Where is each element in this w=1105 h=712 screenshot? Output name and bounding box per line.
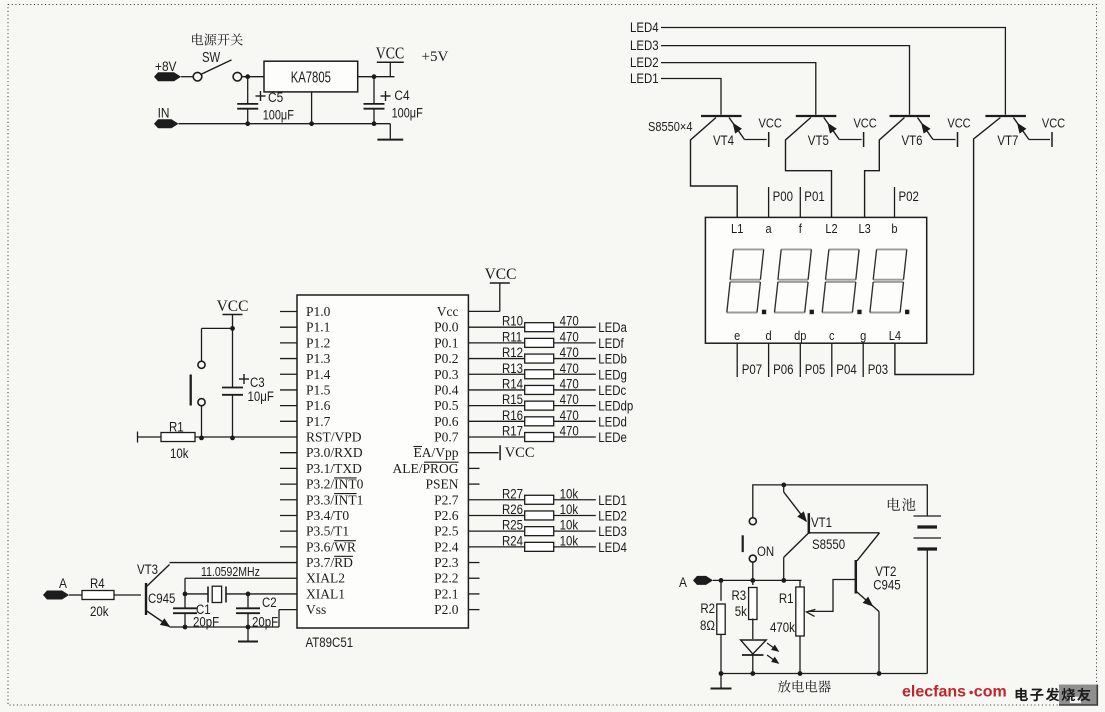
wire stub P1.3 <box>280 358 297 360</box>
svg-text:R26: R26 <box>502 502 523 517</box>
wire stub P1.5 <box>280 389 297 391</box>
resistor R15 470 <box>468 405 525 407</box>
svg-text:LED1: LED1 <box>630 71 659 86</box>
svg-text:P0.4: P0.4 <box>434 382 459 397</box>
wire reset switch to RST <box>201 406 203 438</box>
svg-text:R17: R17 <box>502 424 523 439</box>
svg-text:P2.1: P2.1 <box>434 586 458 601</box>
svg-text:XIAL2: XIAL2 <box>306 571 345 586</box>
power VCC at VT6 <box>957 132 959 147</box>
svg-text:VT3: VT3 <box>137 562 158 577</box>
svg-text:R1: R1 <box>779 591 794 606</box>
svg-text:VCC: VCC <box>759 116 783 131</box>
potentiometer R1 470k <box>799 580 801 587</box>
svg-text:Vcc: Vcc <box>437 304 459 319</box>
svg-text:VT1: VT1 <box>811 515 832 530</box>
svg-text:LEDdp: LEDdp <box>598 399 633 414</box>
svg-text:A: A <box>679 574 687 590</box>
switch SW 电源开关 <box>193 72 202 81</box>
wire stub P3.6/WR <box>280 546 297 548</box>
svg-text:R16: R16 <box>502 408 523 423</box>
svg-text:R11: R11 <box>502 330 522 345</box>
svg-text:R14: R14 <box>502 377 523 392</box>
svg-text:LEDd: LEDd <box>598 414 627 429</box>
svg-text:S8550×4: S8550×4 <box>648 119 693 134</box>
svg-text:LED3: LED3 <box>630 38 659 53</box>
svg-text:C5: C5 <box>268 89 283 105</box>
wire stub P1.7 <box>280 420 297 422</box>
svg-text:com: com <box>974 683 1007 700</box>
svg-text:C945: C945 <box>148 591 175 606</box>
transistor VT5 S8550 <box>796 115 837 117</box>
svg-text:AT89C51: AT89C51 <box>306 635 354 650</box>
svg-text:VCC: VCC <box>217 298 249 315</box>
node crystal right junction <box>246 592 251 597</box>
svg-text:LEDc: LEDc <box>598 383 626 398</box>
wire stub P3.2/INT0 <box>280 483 297 485</box>
wire stub P1.4 <box>280 373 297 375</box>
svg-text:R12: R12 <box>502 345 523 360</box>
wire Vss pin <box>279 609 297 611</box>
resistor R3 5k <box>752 580 754 585</box>
diode LED D1 <box>741 640 767 654</box>
svg-text:P01: P01 <box>804 189 824 204</box>
node VCC reset junction <box>230 326 235 331</box>
svg-text:elecfans: elecfans <box>902 683 966 700</box>
node regulator ground junction <box>309 121 314 126</box>
svg-text:LEDf: LEDf <box>598 336 624 351</box>
svg-text:P1.6: P1.6 <box>306 398 331 413</box>
svg-text:8Ω: 8Ω <box>700 618 715 633</box>
svg-text:P05: P05 <box>805 362 825 377</box>
node switch output junction <box>245 74 250 79</box>
resistor R1 10k (reset) <box>137 432 139 443</box>
svg-text:VCC: VCC <box>1042 116 1066 131</box>
wire regulator ground pin <box>311 92 313 124</box>
svg-text:P3.4/T0: P3.4/T0 <box>306 508 349 523</box>
node crystal left junction <box>183 592 188 597</box>
svg-text:P2.5: P2.5 <box>434 524 459 539</box>
display DS1 4-digit 7-segment <box>705 217 926 343</box>
wire battery top rail <box>753 485 928 518</box>
svg-text:P1.4: P1.4 <box>306 367 331 382</box>
svg-text:10μF: 10μF <box>248 389 275 404</box>
wire node A rail <box>713 579 802 581</box>
resistor R24 10k <box>468 546 525 548</box>
ground power <box>389 124 391 139</box>
resistor R25 10k <box>468 530 525 532</box>
resistor R27 10k <box>468 499 525 501</box>
svg-text:R24: R24 <box>502 533 523 548</box>
node VT1 emitter junction <box>781 483 786 488</box>
LED arrows <box>767 643 778 651</box>
seven-segment digits <box>727 249 764 312</box>
power VCC at VT5 <box>863 132 865 147</box>
logo 电子发烧友 <box>1059 685 1097 706</box>
svg-text:C3: C3 <box>250 375 265 390</box>
svg-text:Vss: Vss <box>306 602 326 617</box>
svg-text:L3: L3 <box>858 221 871 236</box>
svg-text:ON: ON <box>757 544 774 559</box>
svg-text:P0.7: P0.7 <box>434 430 459 445</box>
svg-text:470: 470 <box>560 408 579 423</box>
svg-text:IN: IN <box>158 104 170 120</box>
svg-text:LED2: LED2 <box>630 55 659 70</box>
svg-text:C2: C2 <box>262 595 277 610</box>
svg-text:P00: P00 <box>773 189 793 204</box>
svg-text:R4: R4 <box>90 576 105 591</box>
svg-text:LED3: LED3 <box>598 524 627 539</box>
svg-text:P3.2/INT0: P3.2/INT0 <box>306 477 364 492</box>
svg-text:P07: P07 <box>742 362 762 377</box>
svg-text:P2.0: P2.0 <box>434 602 459 617</box>
svg-text:a: a <box>766 221 772 236</box>
svg-text:5k: 5k <box>735 604 748 619</box>
transistor VT6 S8550 <box>890 115 931 117</box>
node regulator output junction <box>372 74 377 79</box>
transistor VT2 C945 <box>855 560 858 594</box>
wire stub P1.1 <box>280 326 297 328</box>
resistor R26 10k <box>468 514 525 516</box>
wire stub P3.3/INT1 <box>280 499 297 501</box>
svg-text:470: 470 <box>560 377 579 392</box>
capacitor C5 100uF <box>247 77 249 104</box>
svg-text:LEDg: LEDg <box>598 367 627 382</box>
wire switch to regulator <box>242 76 264 78</box>
resistor R2 8ohm <box>720 580 722 600</box>
svg-text:VCC: VCC <box>485 266 517 283</box>
svg-text:PSEN: PSEN <box>425 477 458 492</box>
svg-text:VT5: VT5 <box>808 133 829 148</box>
wire stub P1.2 <box>280 342 297 344</box>
resistor R11 470 <box>468 342 525 344</box>
microcontroller U1 AT89C51 <box>297 295 468 628</box>
svg-text:R25: R25 <box>502 518 523 533</box>
wire stub P2.0 <box>468 609 479 611</box>
svg-text:P1.2: P1.2 <box>306 335 330 350</box>
svg-text:470: 470 <box>560 361 579 376</box>
resistor R12 470 <box>468 358 525 360</box>
svg-text:R27: R27 <box>502 486 523 501</box>
ground crystal <box>247 627 249 641</box>
label 放电电器 <box>778 680 831 692</box>
svg-text:R15: R15 <box>502 392 523 407</box>
svg-text:P0.6: P0.6 <box>434 414 459 429</box>
wire ground rail <box>179 123 391 125</box>
svg-text:P3.6/WR: P3.6/WR <box>306 539 356 554</box>
wire stub ALE/PROG <box>468 467 479 469</box>
svg-text:RST/VPD: RST/VPD <box>306 430 362 445</box>
svg-text:P0.1: P0.1 <box>434 335 458 350</box>
wire stub P2.2 <box>468 577 479 579</box>
transistor VT1 S8550 <box>808 513 811 534</box>
svg-text:470: 470 <box>560 330 579 345</box>
svg-text:P3.3/INT1: P3.3/INT1 <box>306 492 363 507</box>
wire regulator output <box>358 76 395 78</box>
svg-text:+5V: +5V <box>422 49 449 65</box>
regulator KA7805 <box>264 61 358 92</box>
wire stub PSEN <box>468 483 479 485</box>
svg-text:R10: R10 <box>502 314 523 329</box>
svg-text:LED4: LED4 <box>598 540 627 555</box>
wire VT7 collector <box>974 118 1001 375</box>
switch reset button <box>198 361 205 368</box>
transistor VT7 S8550 <box>985 115 1026 117</box>
svg-text:P1.1: P1.1 <box>306 320 330 335</box>
svg-text:100μF: 100μF <box>392 105 423 121</box>
svg-text:470: 470 <box>560 392 579 407</box>
svg-text:P0.2: P0.2 <box>434 351 458 366</box>
wire stub P3.4/T0 <box>280 514 297 516</box>
svg-text:C4: C4 <box>394 87 409 103</box>
svg-text:P2.2: P2.2 <box>434 571 458 586</box>
capacitor C2 20pF <box>247 594 249 608</box>
svg-text:R1: R1 <box>169 420 184 435</box>
svg-text:LEDa: LEDa <box>598 320 627 335</box>
wire EA/Vpp to VCC <box>468 452 498 454</box>
svg-text:b: b <box>891 221 897 236</box>
svg-text:P2.6: P2.6 <box>434 508 459 523</box>
svg-text:KA7805: KA7805 <box>291 69 331 86</box>
svg-text:XIAL1: XIAL1 <box>306 586 345 601</box>
wire stub P2.1 <box>468 593 479 595</box>
capacitor C3 10uF <box>232 328 234 388</box>
wire VT3 collector to P3.7 <box>170 562 298 564</box>
svg-text:R2: R2 <box>700 601 715 616</box>
resistor R10 470 <box>468 326 525 328</box>
svg-text:LED4: LED4 <box>630 20 659 35</box>
svg-text:P1.0: P1.0 <box>306 304 331 319</box>
svg-text:P3.5/T1: P3.5/T1 <box>306 524 349 539</box>
wire stub P3.0/RXD <box>280 452 297 454</box>
svg-text:P1.5: P1.5 <box>306 382 331 397</box>
svg-text:+8V: +8V <box>155 58 177 74</box>
svg-text:LED2: LED2 <box>598 509 627 524</box>
wire stub P2.3 <box>468 562 479 564</box>
svg-text:P06: P06 <box>773 362 793 377</box>
svg-text:P2.3: P2.3 <box>434 555 459 570</box>
svg-text:470: 470 <box>560 345 579 360</box>
svg-text:A: A <box>59 575 67 591</box>
svg-text:P3.0/RXD: P3.0/RXD <box>306 445 363 460</box>
svg-text:10k: 10k <box>560 518 579 533</box>
node C4 ground junction <box>372 121 377 126</box>
wire VT4 collector <box>691 118 738 218</box>
svg-text:EA/Vpp: EA/Vpp <box>414 445 459 460</box>
svg-text:P0.5: P0.5 <box>434 398 459 413</box>
svg-text:10k: 10k <box>560 533 579 548</box>
svg-text:LEDb: LEDb <box>598 352 627 367</box>
svg-text:10k: 10k <box>560 486 579 501</box>
resistor R16 470 <box>468 420 525 422</box>
wire stub P3.5/T1 <box>280 530 297 532</box>
capacitor C4 100uF <box>373 77 375 104</box>
wire stub P1.0 <box>280 311 297 313</box>
svg-text:e: e <box>734 328 740 343</box>
svg-text:VCC: VCC <box>947 116 971 131</box>
switch ON <box>749 518 756 525</box>
svg-text:S8550: S8550 <box>812 537 845 552</box>
capacitor C1 20pF <box>173 607 197 609</box>
svg-text:R3: R3 <box>732 588 747 603</box>
svg-text:P3.7/RD: P3.7/RD <box>306 555 353 570</box>
wire stub P3.1/TXD <box>280 467 297 469</box>
svg-text:10k: 10k <box>170 446 189 461</box>
svg-text:P04: P04 <box>836 362 856 377</box>
svg-text:L2: L2 <box>825 221 838 236</box>
svg-text:P03: P03 <box>868 362 888 377</box>
wire L4 to VT7 <box>895 343 974 374</box>
wire XIAL2 net <box>185 577 297 579</box>
power VCC at VT7 <box>1051 132 1053 147</box>
node C1 ground junction <box>183 625 188 630</box>
resistor R13 470 <box>468 373 525 375</box>
svg-text:11.0592MHz: 11.0592MHz <box>201 564 260 579</box>
wire VT2 base to R1 wiper <box>808 580 856 612</box>
wire reset top <box>202 327 233 329</box>
wire VT5 collector <box>786 118 832 218</box>
wire VT6 collector <box>865 118 905 218</box>
svg-text:P2.7: P2.7 <box>434 492 459 507</box>
svg-text:P2.4: P2.4 <box>434 539 459 554</box>
svg-text:VCC: VCC <box>853 116 877 131</box>
power VCC at VT4 <box>768 132 770 147</box>
resistor R17 470 <box>468 436 525 438</box>
svg-text:470: 470 <box>560 314 579 329</box>
svg-text:P3.1/TXD: P3.1/TXD <box>306 461 362 476</box>
wire emitter ground rail <box>170 626 280 628</box>
wire stub P1.6 <box>280 405 297 407</box>
svg-text:d: d <box>766 328 772 343</box>
resistor R14 470 <box>468 389 525 391</box>
svg-text:g: g <box>860 328 866 343</box>
svg-text:VT7: VT7 <box>997 133 1018 148</box>
ground discharge <box>720 674 722 688</box>
svg-text:VT4: VT4 <box>713 133 734 148</box>
svg-text:470: 470 <box>560 424 579 439</box>
svg-text:L1: L1 <box>731 221 744 236</box>
svg-text:P0.0: P0.0 <box>434 320 459 335</box>
svg-text:LEDe: LEDe <box>598 430 627 445</box>
svg-text:100μF: 100μF <box>263 107 294 123</box>
svg-text:P0.3: P0.3 <box>434 367 459 382</box>
svg-text:P1.3: P1.3 <box>306 351 331 366</box>
battery BT1 电池 <box>888 498 916 511</box>
svg-text:VCC: VCC <box>376 44 404 62</box>
svg-text:P1.7: P1.7 <box>306 414 331 429</box>
wire VT1 base to VT2 collector <box>809 532 880 534</box>
svg-text:VCC: VCC <box>505 445 535 461</box>
wire discharge bottom rail <box>721 673 927 675</box>
svg-text:C945: C945 <box>873 578 900 593</box>
svg-text:470k: 470k <box>770 620 796 635</box>
svg-text:L4: L4 <box>889 328 902 343</box>
svg-text:R13: R13 <box>502 361 523 376</box>
node reset switch junction <box>199 436 204 441</box>
svg-text:VT6: VT6 <box>902 133 923 148</box>
transistor VT4 S8550 <box>701 115 742 117</box>
node C5 ground junction <box>245 121 250 126</box>
wire Vcc pin <box>468 310 499 312</box>
resistor R4 20k <box>69 594 82 596</box>
svg-text:LED1: LED1 <box>598 493 627 508</box>
svg-text:20k: 20k <box>90 604 109 619</box>
svg-text:10k: 10k <box>560 502 579 517</box>
svg-text:dp: dp <box>794 328 807 343</box>
svg-text:c: c <box>829 328 835 343</box>
svg-text:SW: SW <box>202 49 221 66</box>
node C2 ground junction <box>246 625 251 630</box>
svg-text:ALE/PROG: ALE/PROG <box>392 461 458 476</box>
node C3 junction <box>230 436 235 441</box>
svg-text:P02: P02 <box>899 189 919 204</box>
transistor VT3 C945 <box>145 583 147 615</box>
